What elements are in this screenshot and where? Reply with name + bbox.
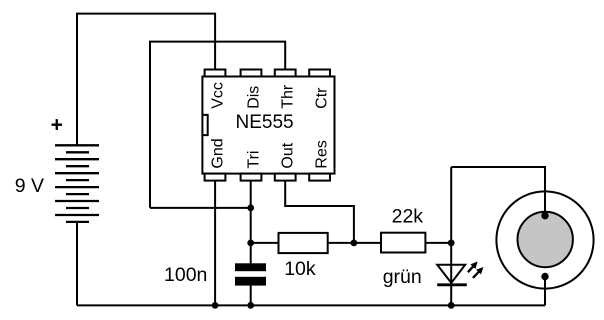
resistor R1 10k — [279, 233, 328, 253]
IC pin-1 notch marker — [202, 115, 207, 135]
svg-text:Out: Out — [280, 142, 297, 168]
svg-text:NE555: NE555 — [236, 112, 294, 133]
svg-text:Ctr: Ctr — [314, 87, 331, 109]
junction Out / resistor node — [351, 240, 358, 247]
svg-text:22k: 22k — [392, 205, 424, 227]
pin 1 Gnd — [205, 174, 226, 181]
svg-text:100n: 100n — [164, 264, 207, 286]
junction Gnd / ground rail — [212, 302, 219, 309]
wire battery+ to top rail to Vcc pin — [77, 14, 215, 146]
svg-text:Vcc: Vcc — [209, 82, 226, 109]
LED light arrow 1 — [468, 262, 478, 273]
svg-text:Res: Res — [314, 140, 331, 168]
pin 4 Res — [309, 174, 330, 181]
junction speaker bottom terminal — [541, 273, 548, 280]
battery BT1 9V — [55, 145, 99, 222]
junction speaker top terminal — [541, 212, 548, 219]
capacitor C1 top plate — [235, 263, 266, 271]
wire R2 to LED branch — [426, 242, 451, 244]
svg-text:Gnd: Gnd — [209, 138, 226, 168]
svg-text:Thr: Thr — [280, 84, 297, 109]
wire Out pin to resistor node — [285, 180, 354, 243]
pin 3 Out — [275, 174, 296, 181]
wire capacitor to ground rail — [250, 285, 252, 305]
wire node column to Tri junction — [150, 207, 251, 209]
wire Tri junction to R1 — [251, 242, 279, 244]
pin 2 Tri — [241, 174, 262, 181]
wire Gnd pin to ground rail — [214, 180, 216, 306]
pin 5 Ctr — [309, 70, 330, 77]
svg-text:9 V: 9 V — [15, 175, 44, 197]
svg-text:Tri: Tri — [245, 151, 262, 169]
pin 6 Thr — [275, 70, 296, 77]
resistor R2 22k — [381, 233, 425, 253]
speaker LS1 outer circle — [496, 191, 593, 288]
pin 7 Dis — [241, 70, 262, 77]
wire LED branch top to speaker top — [451, 167, 545, 216]
svg-text:grün: grün — [383, 266, 422, 288]
wire Tri pin down to capacitor — [250, 180, 252, 265]
junction Tri / R1 node — [247, 240, 254, 247]
svg-text:Dis: Dis — [245, 86, 262, 109]
junction capacitor / ground rail — [247, 302, 254, 309]
capacitor C1 bottom plate — [235, 277, 266, 286]
wire battery- to ground rail — [76, 222, 78, 306]
junction Tri node — [247, 205, 254, 212]
speaker LS1 membrane — [518, 212, 573, 267]
wire ground rail — [77, 304, 545, 306]
LED D1 triangle — [437, 265, 465, 283]
wire LED branch vertical — [450, 167, 452, 305]
svg-text:10k: 10k — [284, 258, 316, 280]
wire R1 to R2 through Out node — [328, 242, 381, 244]
LED D1 cathode bar — [437, 283, 467, 286]
wire speaker bottom to ground rail — [544, 277, 546, 306]
IC U1 NE555 body with notch — [202, 77, 334, 174]
junction R2 / LED branch — [448, 240, 455, 247]
svg-text:+: + — [51, 114, 63, 137]
pin 8 Vcc — [205, 70, 226, 77]
junction LED / ground rail — [448, 302, 455, 309]
wire Thr rail to node column — [150, 42, 285, 208]
LED light arrow 2 — [473, 267, 484, 278]
